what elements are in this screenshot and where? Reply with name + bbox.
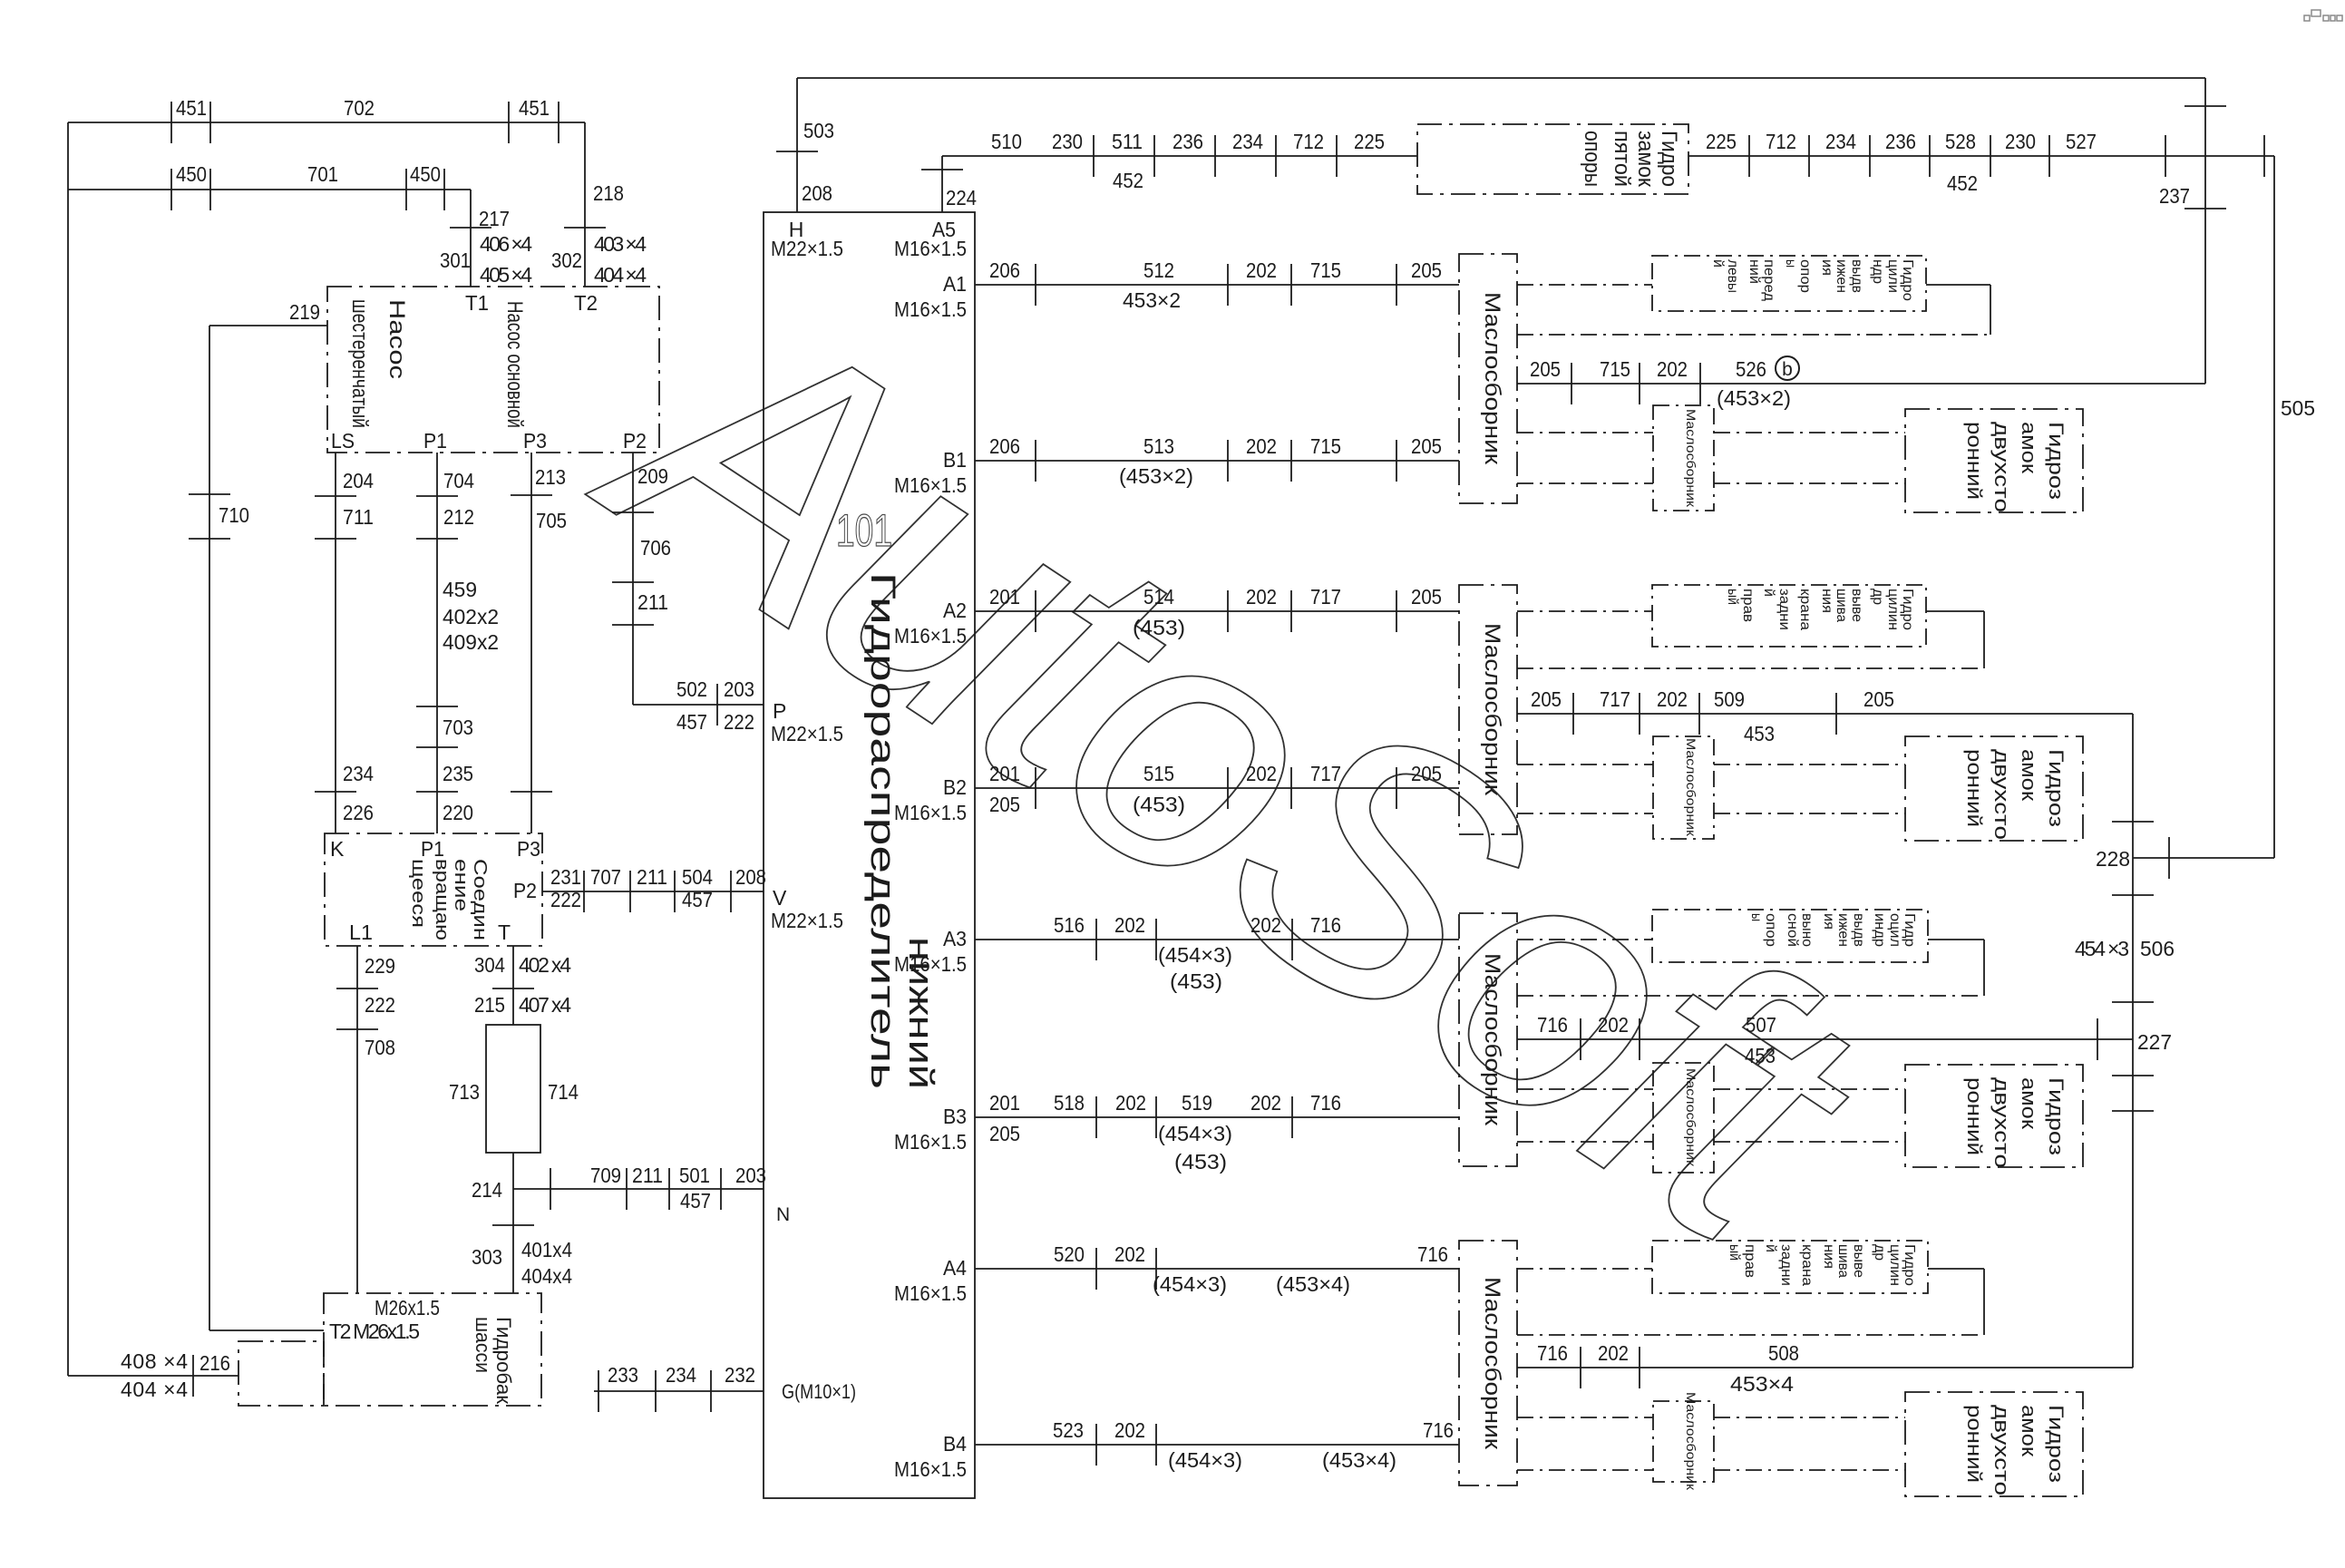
svg-text:вращаю: вращаю — [432, 859, 452, 940]
svg-text:402x2: 402x2 — [443, 605, 499, 628]
svg-text:205: 205 — [1530, 357, 1561, 381]
svg-text:214: 214 — [472, 1178, 502, 1202]
svg-text:229: 229 — [365, 954, 395, 978]
svg-text:A2: A2 — [943, 599, 967, 622]
svg-text:712: 712 — [1766, 130, 1796, 153]
svg-text:212: 212 — [443, 505, 474, 529]
svg-text:503: 503 — [803, 119, 834, 142]
svg-text:Насос: Насос — [384, 299, 409, 379]
svg-text:сной: сной — [1785, 913, 1800, 947]
svg-text:выве: выве — [1851, 1244, 1866, 1278]
svg-text:ый: ый — [1727, 1244, 1742, 1261]
svg-text:222: 222 — [365, 993, 395, 1017]
svg-text:(453): (453) — [1170, 969, 1222, 993]
svg-text:P: P — [773, 699, 786, 723]
svg-text:B3: B3 — [943, 1105, 967, 1128]
svg-text:222: 222 — [550, 888, 581, 911]
svg-text:пятой: пятой — [1610, 131, 1634, 187]
svg-text:234: 234 — [666, 1363, 696, 1387]
svg-text:Гидро: Гидро — [1902, 1244, 1917, 1286]
svg-text:прав: прав — [1742, 1244, 1757, 1278]
svg-text:M26x1.5: M26x1.5 — [375, 1296, 440, 1320]
svg-text:219: 219 — [289, 300, 320, 324]
svg-text:234: 234 — [1232, 130, 1263, 153]
svg-text:M16×1.5: M16×1.5 — [894, 1281, 967, 1305]
svg-text:201: 201 — [989, 1091, 1020, 1115]
svg-text:205: 205 — [1411, 762, 1442, 785]
svg-text:Гидро: Гидро — [1900, 259, 1915, 301]
svg-text:цилин: цилин — [1887, 1244, 1902, 1286]
svg-text:218: 218 — [593, 181, 624, 205]
svg-text:511: 511 — [1112, 130, 1143, 153]
svg-text:замок: замок — [1633, 131, 1658, 187]
svg-text:P3: P3 — [517, 837, 540, 861]
svg-text:507: 507 — [1746, 1013, 1776, 1037]
svg-text:N: N — [776, 1204, 790, 1225]
svg-text:Маслосборник: Маслосборник — [1684, 738, 1698, 837]
svg-text:Маслосборник: Маслосборник — [1480, 953, 1504, 1126]
svg-text:M16×1.5: M16×1.5 — [894, 473, 967, 497]
svg-text:опор: опор — [1797, 259, 1813, 293]
svg-text:716: 716 — [1310, 1091, 1341, 1115]
svg-text:712: 712 — [1293, 130, 1324, 153]
svg-text:шива: шива — [1835, 1244, 1851, 1278]
svg-text:234: 234 — [1825, 130, 1856, 153]
svg-text:й: й — [1761, 589, 1776, 597]
svg-text:220: 220 — [443, 801, 473, 824]
svg-text:452: 452 — [1947, 171, 1978, 195]
svg-text:M16×1.5: M16×1.5 — [894, 624, 967, 648]
svg-text:Гидро: Гидро — [1657, 131, 1681, 187]
svg-text:215: 215 — [474, 993, 505, 1017]
svg-text:501: 501 — [679, 1164, 710, 1187]
svg-text:209: 209 — [637, 464, 668, 488]
svg-text:715: 715 — [1310, 434, 1341, 458]
svg-text:Гидроз: Гидроз — [2045, 422, 2068, 500]
svg-text:M16×1.5: M16×1.5 — [894, 801, 967, 824]
svg-text:453: 453 — [1744, 722, 1775, 745]
svg-text:506: 506 — [2140, 937, 2175, 960]
svg-text:211: 211 — [637, 865, 667, 889]
svg-text:Гидроз: Гидроз — [2045, 1405, 2068, 1483]
svg-text:512: 512 — [1143, 258, 1174, 282]
svg-text:454 ×3: 454 ×3 — [2075, 937, 2129, 960]
svg-text:Маслосборник: Маслосборник — [1480, 292, 1504, 465]
svg-text:509: 509 — [1714, 687, 1745, 711]
svg-text:A4: A4 — [943, 1256, 967, 1280]
svg-text:крана: крана — [1797, 589, 1813, 630]
svg-text:227: 227 — [2137, 1030, 2172, 1054]
svg-text:505: 505 — [2281, 396, 2315, 420]
svg-text:237: 237 — [2159, 184, 2190, 208]
svg-text:M16×1.5: M16×1.5 — [894, 1130, 967, 1154]
svg-text:234: 234 — [343, 762, 374, 785]
svg-text:двухсто: двухсто — [1990, 422, 2013, 512]
svg-text:M16×1.5: M16×1.5 — [894, 237, 967, 260]
svg-text:двухсто: двухсто — [1990, 1405, 2013, 1495]
svg-text:Маслосборник: Маслосборник — [1684, 1068, 1698, 1167]
svg-text:513: 513 — [1143, 434, 1174, 458]
svg-text:ронний: ронний — [1963, 749, 1986, 827]
svg-text:202: 202 — [1114, 1242, 1145, 1266]
svg-text:717: 717 — [1600, 687, 1630, 711]
svg-text:выдв: выдв — [1851, 913, 1866, 947]
svg-text:230: 230 — [2005, 130, 2036, 153]
svg-text:(454×3): (454×3) — [1158, 943, 1232, 967]
svg-text:др: др — [1872, 1244, 1887, 1261]
svg-text:202: 202 — [1250, 913, 1281, 937]
svg-text:Маслосборник: Маслосборник — [1684, 409, 1698, 508]
svg-text:231: 231 — [550, 865, 581, 889]
svg-text:451: 451 — [519, 96, 550, 120]
svg-text:526: 526 — [1736, 357, 1766, 381]
svg-text:527: 527 — [2066, 130, 2097, 153]
svg-text:702: 702 — [344, 96, 375, 120]
svg-text:523: 523 — [1053, 1418, 1084, 1442]
svg-text:101: 101 — [836, 505, 892, 556]
svg-text:457: 457 — [682, 888, 713, 911]
svg-text:206: 206 — [989, 434, 1020, 458]
svg-text:202: 202 — [1657, 687, 1688, 711]
svg-text:P1: P1 — [421, 837, 444, 861]
svg-text:T2: T2 — [574, 291, 598, 315]
svg-text:406 ×4: 406 ×4 — [480, 232, 532, 256]
svg-text:508: 508 — [1768, 1341, 1799, 1365]
svg-text:230: 230 — [1052, 130, 1083, 153]
svg-text:232: 232 — [725, 1363, 755, 1387]
svg-text:405 ×4: 405 ×4 — [480, 263, 532, 287]
svg-text:453×4: 453×4 — [1730, 1372, 1794, 1396]
svg-text:M16×1.5: M16×1.5 — [894, 297, 967, 321]
svg-text:Маслосборник: Маслосборник — [1684, 1392, 1698, 1491]
svg-text:235: 235 — [443, 762, 473, 785]
svg-text:P3: P3 — [523, 429, 547, 453]
svg-text:453: 453 — [1745, 1044, 1776, 1067]
svg-text:708: 708 — [365, 1036, 395, 1059]
svg-text:203: 203 — [735, 1164, 766, 1187]
svg-text:716: 716 — [1537, 1013, 1568, 1037]
svg-text:ний: ний — [1747, 259, 1762, 284]
svg-text:задни: задни — [1778, 1244, 1794, 1286]
svg-text:451: 451 — [176, 96, 207, 120]
svg-text:457: 457 — [680, 1189, 711, 1213]
svg-text:716: 716 — [1537, 1341, 1568, 1365]
svg-text:205: 205 — [1411, 434, 1442, 458]
svg-text:202: 202 — [1598, 1341, 1629, 1365]
svg-text:M16×1.5: M16×1.5 — [894, 1457, 967, 1481]
svg-text:двухсто: двухсто — [1990, 749, 2013, 840]
svg-text:G(M10×1): G(M10×1) — [782, 1380, 856, 1403]
svg-text:P1: P1 — [423, 429, 447, 453]
svg-text:226: 226 — [343, 801, 374, 824]
svg-text:ый: ый — [1725, 589, 1740, 605]
svg-text:(454×3): (454×3) — [1168, 1448, 1242, 1472]
svg-text:др: др — [1870, 589, 1885, 605]
svg-text:ния: ния — [1821, 1244, 1836, 1269]
svg-text:717: 717 — [1310, 585, 1341, 609]
svg-text:404 ×4: 404 ×4 — [594, 263, 647, 287]
svg-text:Соедин: Соедин — [470, 859, 490, 940]
svg-text:201: 201 — [989, 762, 1020, 785]
svg-text:Гидр: Гидр — [1902, 913, 1917, 947]
svg-text:P2: P2 — [513, 879, 537, 902]
svg-text:202: 202 — [1246, 585, 1277, 609]
svg-text:LS: LS — [331, 429, 355, 453]
svg-text:й: й — [1710, 259, 1726, 268]
svg-text:B2: B2 — [943, 775, 967, 799]
svg-text:оцил: оцил — [1887, 913, 1902, 947]
svg-text:(453): (453) — [1174, 1150, 1227, 1174]
svg-text:й: й — [1763, 1244, 1778, 1252]
svg-text:201: 201 — [989, 585, 1020, 609]
svg-text:703: 703 — [443, 716, 473, 739]
svg-text:514: 514 — [1143, 585, 1174, 609]
svg-text:опоры: опоры — [1580, 131, 1604, 187]
svg-text:516: 516 — [1054, 913, 1085, 937]
svg-text:202: 202 — [1114, 913, 1145, 937]
svg-text:202: 202 — [1598, 1013, 1629, 1037]
svg-text:(454×3): (454×3) — [1158, 1122, 1232, 1145]
svg-text:225: 225 — [1354, 130, 1385, 153]
svg-text:217: 217 — [479, 207, 510, 230]
svg-text:двухсто: двухсто — [1990, 1077, 2013, 1168]
svg-text:ы: ы — [1783, 259, 1798, 268]
svg-text:202: 202 — [1250, 1091, 1281, 1115]
svg-text:T: T — [498, 920, 511, 944]
svg-text:713: 713 — [449, 1080, 480, 1104]
svg-text:704: 704 — [443, 469, 474, 492]
svg-text:B4: B4 — [943, 1432, 967, 1456]
svg-text:b: b — [1782, 359, 1793, 380]
svg-text:707: 707 — [590, 865, 621, 889]
svg-text:204: 204 — [343, 469, 374, 492]
svg-text:Гидроз: Гидроз — [2045, 1077, 2068, 1155]
svg-text:206: 206 — [989, 258, 1020, 282]
svg-text:M16×1.5: M16×1.5 — [894, 952, 967, 976]
svg-text:211: 211 — [637, 590, 668, 614]
svg-text:404x4: 404x4 — [521, 1264, 572, 1288]
svg-text:216: 216 — [199, 1351, 230, 1375]
svg-text:402 x4: 402 x4 — [519, 953, 571, 977]
svg-text:304: 304 — [474, 953, 505, 977]
svg-text:202: 202 — [1246, 258, 1277, 282]
svg-text:K: K — [330, 837, 345, 861]
svg-text:выве: выве — [1849, 589, 1864, 622]
svg-text:Гидробак: Гидробак — [492, 1317, 515, 1404]
svg-text:715: 715 — [1310, 258, 1341, 282]
svg-text:715: 715 — [1600, 357, 1630, 381]
svg-text:233: 233 — [608, 1363, 638, 1387]
svg-text:ение: ение — [451, 859, 471, 911]
svg-text:(453×4): (453×4) — [1276, 1272, 1350, 1296]
svg-text:цили: цили — [1885, 259, 1901, 293]
svg-text:714: 714 — [548, 1080, 579, 1104]
svg-text:459: 459 — [443, 578, 477, 601]
svg-text:301: 301 — [440, 248, 471, 272]
svg-text:403 ×4: 403 ×4 — [594, 232, 647, 256]
svg-text:705: 705 — [536, 509, 567, 532]
svg-text:выно: выно — [1799, 913, 1815, 947]
svg-text:504: 504 — [682, 865, 713, 889]
svg-text:L1: L1 — [349, 920, 373, 944]
svg-text:M22×1.5: M22×1.5 — [771, 722, 843, 745]
svg-text:213: 213 — [535, 465, 566, 489]
svg-text:208: 208 — [735, 865, 766, 889]
svg-text:Гидроз: Гидроз — [2045, 749, 2068, 827]
svg-text:ния: ния — [1819, 589, 1834, 613]
svg-text:510: 510 — [991, 130, 1022, 153]
svg-text:перед: перед — [1761, 259, 1776, 301]
svg-text:индр: индр — [1872, 913, 1887, 947]
svg-text:457: 457 — [676, 710, 707, 734]
svg-text:P2: P2 — [623, 429, 647, 453]
svg-text:408 ×4: 408 ×4 — [121, 1349, 188, 1373]
svg-text:453×2: 453×2 — [1123, 288, 1181, 312]
svg-text:Гидрораспределитель: Гидрораспределитель — [863, 572, 901, 1089]
svg-text:амок: амок — [2018, 422, 2040, 473]
svg-text:Маслосборник: Маслосборник — [1480, 623, 1504, 796]
svg-text:Гидро: Гидро — [1900, 589, 1915, 630]
svg-text:ижен: ижен — [1835, 913, 1851, 947]
svg-text:прав: прав — [1740, 589, 1756, 622]
svg-text:228: 228 — [2096, 847, 2130, 871]
svg-text:202: 202 — [1115, 1091, 1146, 1115]
svg-text:202: 202 — [1657, 357, 1688, 381]
svg-text:цилин: цилин — [1885, 589, 1901, 630]
svg-text:401x4: 401x4 — [521, 1238, 572, 1261]
svg-text:711: 711 — [343, 505, 374, 529]
svg-text:A1: A1 — [943, 272, 967, 296]
svg-text:452: 452 — [1113, 169, 1143, 192]
svg-text:ижен: ижен — [1834, 259, 1849, 293]
svg-text:208: 208 — [802, 181, 832, 205]
svg-text:205: 205 — [989, 793, 1020, 816]
svg-text:V: V — [773, 886, 787, 910]
svg-text:задни: задни — [1776, 589, 1792, 630]
svg-text:404 ×4: 404 ×4 — [121, 1378, 188, 1401]
svg-text:519: 519 — [1182, 1091, 1212, 1115]
svg-text:202: 202 — [1114, 1418, 1145, 1442]
svg-text:450: 450 — [410, 162, 441, 186]
svg-text:701: 701 — [307, 162, 338, 186]
svg-text:левы: левы — [1725, 259, 1740, 293]
svg-text:(453×2): (453×2) — [1717, 386, 1791, 410]
svg-text:717: 717 — [1310, 762, 1341, 785]
svg-text:амок: амок — [2018, 1077, 2040, 1129]
svg-text:ндр: ндр — [1870, 259, 1885, 284]
svg-text:ронний: ронний — [1963, 422, 1986, 500]
svg-text:опор: опор — [1763, 913, 1778, 947]
svg-text:ия: ия — [1821, 913, 1836, 930]
svg-text:709: 709 — [590, 1164, 621, 1187]
svg-text:706: 706 — [640, 536, 671, 560]
svg-text:205: 205 — [1411, 585, 1442, 609]
svg-text:Насос основной: Насос основной — [502, 301, 527, 428]
svg-text:(454×3): (454×3) — [1153, 1272, 1227, 1296]
svg-text:222: 222 — [724, 710, 754, 734]
svg-text:502: 502 — [676, 677, 707, 701]
svg-text:M22×1.5: M22×1.5 — [771, 909, 843, 932]
svg-text:224: 224 — [946, 186, 977, 209]
svg-text:515: 515 — [1143, 762, 1174, 785]
svg-text:205: 205 — [989, 1122, 1020, 1145]
svg-text:(453): (453) — [1133, 793, 1185, 816]
svg-text:(453×4): (453×4) — [1322, 1448, 1396, 1472]
svg-text:409x2: 409x2 — [443, 630, 499, 654]
svg-text:716: 716 — [1423, 1418, 1454, 1442]
svg-text:520: 520 — [1054, 1242, 1085, 1266]
svg-text:T1: T1 — [465, 291, 489, 315]
svg-text:амок: амок — [2018, 1405, 2040, 1456]
svg-text:528: 528 — [1945, 130, 1976, 153]
svg-text:крана: крана — [1799, 1244, 1815, 1286]
svg-text:236: 236 — [1172, 130, 1203, 153]
svg-text:205: 205 — [1531, 687, 1562, 711]
svg-text:710: 710 — [219, 503, 249, 527]
svg-text:(453): (453) — [1133, 616, 1185, 639]
svg-text:шива: шива — [1834, 589, 1849, 622]
svg-text:шестеренчатый: шестеренчатый — [347, 299, 372, 428]
svg-text:205: 205 — [1863, 687, 1894, 711]
svg-text:ронний: ронний — [1963, 1077, 1986, 1155]
svg-text:ы: ы — [1748, 913, 1764, 921]
svg-text:202: 202 — [1246, 762, 1277, 785]
svg-text:(453×2): (453×2) — [1119, 464, 1193, 488]
svg-text:225: 225 — [1706, 130, 1737, 153]
svg-text:B1: B1 — [943, 448, 967, 472]
svg-text:амок: амок — [2018, 749, 2040, 801]
svg-text:211: 211 — [632, 1164, 663, 1187]
svg-text:236: 236 — [1885, 130, 1916, 153]
svg-text:450: 450 — [176, 162, 207, 186]
svg-text:203: 203 — [724, 677, 754, 701]
svg-text:Маслосборник: Маслосборник — [1480, 1277, 1504, 1450]
svg-text:302: 302 — [551, 248, 582, 272]
svg-text:518: 518 — [1054, 1091, 1085, 1115]
svg-text:716: 716 — [1417, 1242, 1448, 1266]
svg-text:выдв: выдв — [1849, 259, 1864, 293]
svg-text:шасси: шасси — [472, 1317, 494, 1373]
svg-text:716: 716 — [1310, 913, 1341, 937]
svg-text:202: 202 — [1246, 434, 1277, 458]
svg-text:303: 303 — [472, 1245, 502, 1269]
svg-text:M22×1.5: M22×1.5 — [771, 237, 843, 260]
svg-text:407 x4: 407 x4 — [519, 993, 571, 1017]
svg-text:A3: A3 — [943, 927, 967, 950]
svg-text:щееся: щееся — [408, 859, 428, 928]
svg-text:ия: ия — [1819, 259, 1834, 276]
svg-text:T2 M26x1.5: T2 M26x1.5 — [329, 1320, 420, 1343]
svg-text:ронний: ронний — [1963, 1405, 1986, 1483]
svg-text:205: 205 — [1411, 258, 1442, 282]
